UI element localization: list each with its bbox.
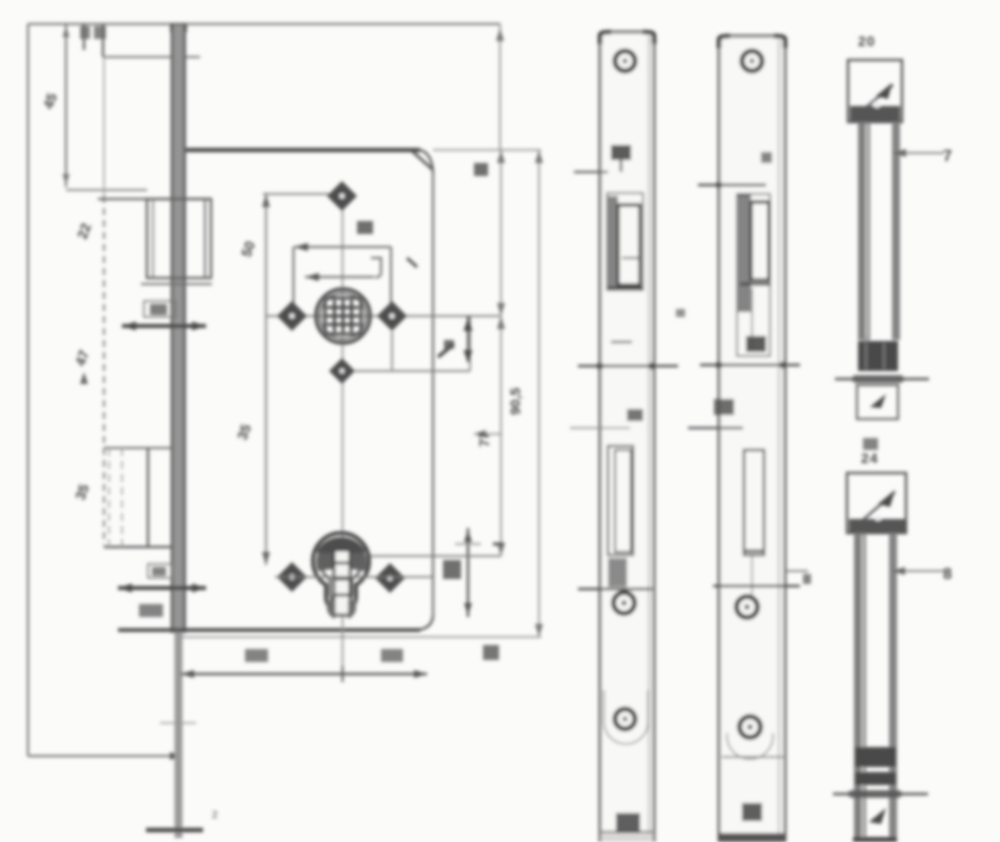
bottom bracket of total-height dimension xyxy=(28,755,182,757)
label in detail box (rotated) xyxy=(438,344,454,357)
frame top horizontal xyxy=(263,193,329,195)
label 40 xyxy=(381,649,403,662)
dark dimension line under deadbolt xyxy=(118,586,206,590)
top small extension line b xyxy=(102,25,104,57)
cassette inner horizontal xyxy=(305,276,374,278)
ev1 strip left edges xyxy=(858,122,870,340)
fp2 lower screw hole xyxy=(740,717,761,738)
fp2 latch cutout outer xyxy=(737,194,770,356)
ev1 head dark band xyxy=(850,106,900,122)
case bottom extension line xyxy=(181,636,541,638)
ev2 strip left edges xyxy=(854,533,866,842)
leader mark at chamfer xyxy=(412,151,432,169)
cylinder right fixing diamond xyxy=(375,563,405,593)
fp2 left dash at deadbolt level xyxy=(688,427,743,429)
ev1 small end box xyxy=(857,385,898,419)
fp2 deadbolt cutout xyxy=(744,450,764,555)
outer dimension border top xyxy=(28,23,500,25)
fp1 small dash xyxy=(611,341,632,343)
spindle hole grid horizontal bars xyxy=(327,308,359,325)
bottom end tick (thick) xyxy=(146,828,203,833)
spindle hole grid vertical bars xyxy=(335,300,352,332)
fp2 crossing line 2 xyxy=(700,364,800,367)
fp1 small label under crossing xyxy=(627,409,643,421)
svg-text:90,5: 90,5 xyxy=(507,388,523,415)
top fixing hole (diamond) xyxy=(327,181,357,211)
fixing-hole frame left vertical xyxy=(265,194,267,565)
ev2 end box mark xyxy=(869,808,886,824)
ev2 head diagonal xyxy=(856,492,895,526)
fp2 latch mid dark bar xyxy=(740,282,771,285)
fp2 crossing line 1 xyxy=(698,184,766,186)
svg-text:24: 24 xyxy=(861,450,879,466)
label 20 box under xyxy=(139,604,163,617)
cylinder dark right crescent xyxy=(351,553,367,571)
cassette right vertical xyxy=(390,247,392,304)
case right edge xyxy=(432,173,434,616)
dark dimension line under latch xyxy=(122,324,206,328)
cylinder dark left crescent xyxy=(316,553,332,571)
ev2 dimension 8 xyxy=(892,570,944,572)
fp2 label in latch lower part xyxy=(746,336,766,352)
line from bottom diamond to detail box xyxy=(355,370,470,372)
label in small box xyxy=(152,567,166,576)
ev2 wing line xyxy=(833,793,928,796)
case bottom-right chamfer xyxy=(418,616,433,630)
latch head face line xyxy=(204,199,206,278)
fp1 crossing line xyxy=(578,365,678,368)
deadbolt box bottom xyxy=(104,546,172,549)
label 55 xyxy=(245,649,268,662)
deadbolt dashed left edge xyxy=(108,448,110,547)
ev2 dark block 2 xyxy=(855,772,896,785)
fp1 label above latch xyxy=(611,145,631,160)
small box under latch xyxy=(144,301,176,317)
follower axis vertical centerline xyxy=(342,184,344,678)
arrowheads on frame left vertical xyxy=(262,194,270,565)
ev2 head arrow blob xyxy=(878,490,895,507)
label 13 in small box xyxy=(150,304,167,315)
fp1 latch cutout outer xyxy=(607,193,643,290)
detail box dimension line xyxy=(467,316,469,362)
case upper-left box bottom xyxy=(66,189,147,191)
bottom fixing hole (diamond) xyxy=(329,358,355,384)
cassette top line xyxy=(294,246,391,248)
deadbolt box top xyxy=(104,447,172,449)
fp2 rounded recess end xyxy=(727,733,773,759)
ev1 wing line xyxy=(835,378,929,381)
fp2 top corner darks xyxy=(719,36,785,48)
case top extension line xyxy=(433,149,541,151)
cylinder left fixing diamond xyxy=(277,562,307,592)
cassette left vertical xyxy=(293,247,295,303)
svg-text:20: 20 xyxy=(858,33,876,49)
latch bottom second line xyxy=(141,283,212,285)
fp2 latch cutout inner xyxy=(751,202,769,280)
spring hook detail xyxy=(371,258,381,277)
tick on centerline xyxy=(160,722,196,724)
fp1 inner right line xyxy=(648,36,650,842)
ev1 head arrow blob xyxy=(876,83,892,99)
case bottom edge xyxy=(118,628,420,632)
ev2 dark block 1 xyxy=(855,747,896,767)
ev1 small label below xyxy=(863,438,878,450)
fp1 bottom label 20 xyxy=(616,813,640,833)
fp1 deadbolt cutout outer xyxy=(608,446,633,555)
small box under deadbolt xyxy=(148,564,172,578)
ev1 strip right edges xyxy=(892,122,900,340)
fp1 latch cutout bottom dark xyxy=(607,287,643,290)
small dimension x=468 lower xyxy=(467,528,469,617)
follower square spindle hole xyxy=(325,298,361,334)
case top-right chamfer xyxy=(420,150,433,173)
fp2 small label right xyxy=(803,574,811,584)
cylinder inner slot xyxy=(334,550,350,615)
small dark mark near case edge lever xyxy=(407,258,417,267)
outer dimension border left xyxy=(27,24,29,756)
fp2 small label above crossing1 xyxy=(761,152,772,163)
fp1 outline xyxy=(600,32,654,842)
ev1 head diagonal xyxy=(858,85,893,114)
top border corner arrow xyxy=(499,24,501,150)
fp1 lower screw hole xyxy=(615,709,635,729)
lock case top edge xyxy=(186,148,420,152)
deadbolt dashed inner line xyxy=(121,448,123,547)
latch bolt body xyxy=(147,199,211,278)
label 8 near lower x468 dim xyxy=(443,560,461,579)
label 8 right of top diamond xyxy=(357,221,373,234)
horizontal line through follower fixing holes xyxy=(267,315,500,317)
svg-text:7: 7 xyxy=(943,148,952,165)
fp2 bottom dark band xyxy=(720,833,785,842)
backplate centerline below case xyxy=(175,633,183,838)
faceplate strip (edge-on backplate) xyxy=(170,23,187,32)
fp1 left tick xyxy=(574,171,608,173)
ev1 end box mark xyxy=(870,394,886,408)
fp1 deadbolt dark band xyxy=(608,558,627,587)
top small dimension blob xyxy=(80,26,90,39)
vertical dimension line x=501 xyxy=(500,150,502,556)
detail box right of follower xyxy=(392,316,470,371)
follower hub inner circle xyxy=(320,293,366,339)
fp2 label 38 xyxy=(714,399,734,415)
horizontal line under top dimension xyxy=(104,56,200,58)
fp2 latch lower inner line xyxy=(751,288,753,350)
right fixing hole (diamond) xyxy=(377,301,407,331)
ev2 bottom dark band xyxy=(853,837,897,842)
fp1 bottom end line xyxy=(600,831,654,833)
ev2 head dark band xyxy=(849,519,905,533)
svg-text:8: 8 xyxy=(943,566,952,583)
profile cylinder hole outer xyxy=(313,533,369,612)
follower hub outer circle xyxy=(316,289,370,343)
case upper-left box vertical xyxy=(65,24,67,187)
fp1 rounded recess end xyxy=(604,690,648,744)
fp1 top screw hole xyxy=(615,51,635,71)
cylinder inner contour xyxy=(320,540,362,604)
fp1 latch cutout shaded band xyxy=(607,196,618,288)
fp2 outline xyxy=(719,36,785,842)
ev1 dark block xyxy=(858,341,898,371)
ev2 strip right edges xyxy=(889,533,897,842)
ev1 dimension 7 xyxy=(893,152,944,154)
arrowhead at bottom bracket meeting backplate centerline xyxy=(170,752,182,760)
fp1 crossing line 2 xyxy=(578,588,652,591)
fp2 inner right line xyxy=(778,40,780,842)
line through cylinder fixing holes xyxy=(275,576,432,578)
left fixing hole (diamond) xyxy=(277,301,307,331)
fp1 mid screw hole xyxy=(614,593,635,614)
fp1 left dash 2 xyxy=(570,427,630,429)
fp2 right tick xyxy=(785,570,808,572)
cylinder slot bars xyxy=(334,563,350,595)
vertical dimension line x=539 xyxy=(538,150,540,637)
fp2 crossing line 3 xyxy=(713,585,800,588)
tiny mark between plates xyxy=(676,309,685,317)
fp2 mid screw hole xyxy=(737,597,758,618)
top small extension line a xyxy=(83,25,85,50)
latch bolt inner left line xyxy=(152,199,154,278)
fp1 top corner darks xyxy=(600,32,654,44)
leader tick y=434 xyxy=(474,433,501,435)
label 8 near top chamfer xyxy=(474,163,488,176)
cylinder lobe inner darks xyxy=(327,600,356,619)
dashed stile line x=104 xyxy=(103,57,105,196)
latch bolt top line xyxy=(98,198,211,200)
svg-text:2: 2 xyxy=(212,810,218,821)
deadbolt solid inner line xyxy=(147,448,149,547)
cylinder horizontal line to dim xyxy=(369,555,501,557)
fp1 latch cutout inner xyxy=(618,205,640,285)
fp2 crossing dashes near recess xyxy=(722,756,783,758)
fp2 latch cutout shaded band xyxy=(737,196,751,312)
fp2 top screw hole xyxy=(742,51,762,71)
backset dimension line under case xyxy=(181,673,427,675)
svg-text:77: 77 xyxy=(476,431,492,447)
cylinder dark shoulders xyxy=(317,537,365,569)
ev2 head box xyxy=(847,473,906,533)
small arrow under label 41 xyxy=(80,372,88,384)
fp1 deadbolt cutout inner xyxy=(615,450,631,552)
fp2 bottom label xyxy=(742,803,762,821)
ev1 head box xyxy=(848,60,902,122)
